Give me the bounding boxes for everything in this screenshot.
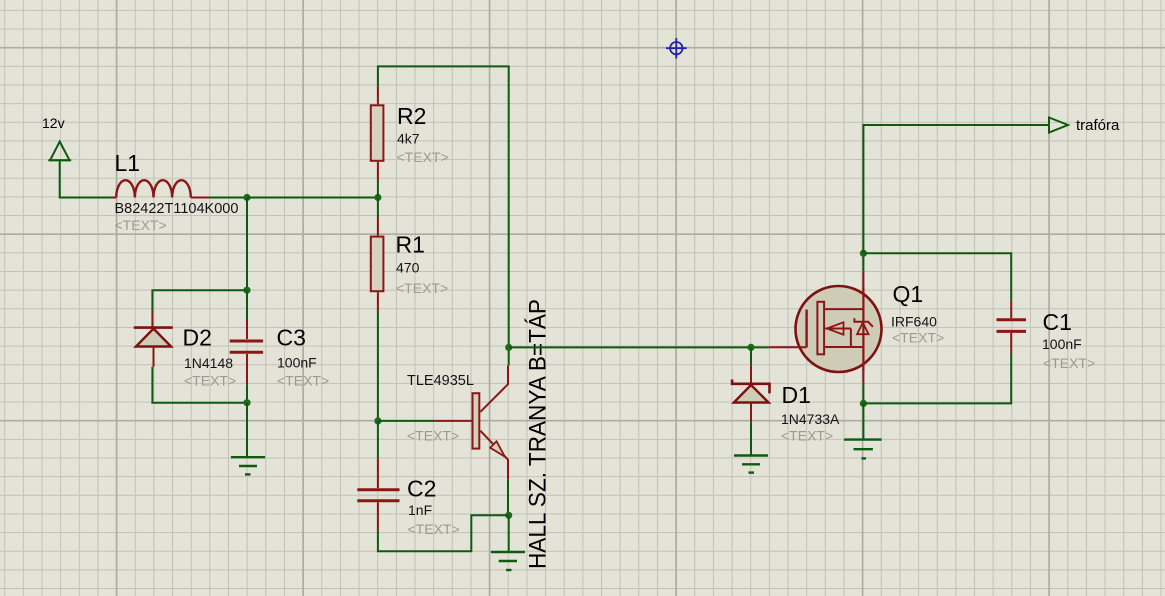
node I junction (drain)	[860, 250, 867, 257]
svg-text:1N4148: 1N4148	[184, 355, 233, 371]
svg-text:<TEXT>: <TEXT>	[1043, 355, 1095, 371]
wire C3 top	[246, 290, 248, 320]
svg-text:R1: R1	[396, 232, 425, 258]
wire collector node to gate	[509, 346, 769, 348]
svg-text:<TEXT>: <TEXT>	[277, 373, 329, 389]
wire emitter down	[507, 479, 509, 515]
wire R2 bottom to node B	[377, 181, 379, 198]
wire drain to node I	[862, 253, 864, 271]
svg-text:100nF: 100nF	[1042, 336, 1082, 352]
svg-text:IRF640: IRF640	[891, 314, 937, 330]
wire node G to ground	[508, 515, 510, 552]
node G junction (emitter/C2/ground)	[505, 512, 512, 519]
wire node D to ground	[246, 403, 248, 457]
transistor TLE4935L	[434, 365, 508, 479]
node H junction (gate/D1)	[747, 344, 754, 351]
resistor R1	[371, 217, 384, 311]
node D junction	[243, 399, 250, 406]
wire node I to C1	[863, 253, 1011, 300]
ground (C3/D2)	[231, 457, 265, 474]
wire node H to D1	[750, 347, 752, 365]
ground (emitter)	[491, 552, 525, 570]
wire node A down	[246, 198, 248, 291]
node A junction	[243, 194, 250, 201]
diode D2	[134, 312, 173, 367]
wire L1 to node A	[210, 197, 248, 199]
svg-text:D1: D1	[782, 382, 811, 408]
wire node B to R1	[377, 198, 379, 218]
svg-text:470: 470	[396, 260, 420, 276]
svg-text:4k7: 4k7	[397, 131, 420, 147]
svg-text:TLE4935L: TLE4935L	[407, 373, 474, 389]
svg-text:<TEXT>: <TEXT>	[781, 428, 833, 444]
node J junction (source)	[860, 400, 867, 407]
svg-text:C3: C3	[277, 325, 306, 351]
wire R1 bottom to node E	[377, 311, 379, 421]
zener diode D1	[732, 365, 769, 421]
svg-text:1N4733A: 1N4733A	[781, 411, 840, 427]
node F junction (collector)	[505, 344, 512, 351]
capacitor C3	[230, 320, 263, 384]
wire node A to R2 node	[247, 197, 378, 199]
ground (D1)	[734, 456, 768, 473]
inductor L1	[111, 180, 210, 197]
svg-text:R2: R2	[397, 103, 426, 129]
svg-text:100nF: 100nF	[277, 355, 317, 371]
resistor R2	[371, 86, 384, 180]
svg-text:Q1: Q1	[893, 281, 924, 307]
wire C3 bottom to node D	[246, 384, 248, 402]
svg-text:L1: L1	[115, 150, 141, 176]
svg-text:C1: C1	[1043, 309, 1072, 335]
svg-text:<TEXT>: <TEXT>	[115, 217, 167, 233]
svg-text:<TEXT>: <TEXT>	[408, 521, 460, 537]
wire C2 top from node E	[377, 421, 379, 458]
wire D1 to ground	[750, 421, 752, 455]
wire C2 bottom to node G	[378, 515, 509, 551]
node E junction (base)	[374, 417, 381, 424]
svg-text:trafóra: trafóra	[1076, 117, 1120, 134]
svg-text:12v: 12v	[42, 115, 65, 131]
svg-text:<TEXT>: <TEXT>	[396, 280, 448, 296]
wire source to node J	[862, 385, 864, 404]
svg-text:D2: D2	[183, 325, 212, 351]
wire D2 to node D	[152, 367, 247, 403]
wire node J to ground	[862, 403, 864, 439]
svg-text:<TEXT>: <TEXT>	[407, 428, 459, 444]
ground (source)	[844, 440, 882, 459]
capacitor C1	[997, 301, 1027, 353]
output terminal trafora	[1049, 118, 1068, 133]
wire 12v terminal to L1	[60, 160, 111, 197]
svg-text:<TEXT>: <TEXT>	[184, 373, 236, 389]
capacitor C2	[357, 458, 399, 530]
node B junction (R2/R1)	[374, 194, 381, 201]
wire drain node to output terminal	[863, 125, 1049, 253]
wire top loop R2 to collector rail	[378, 66, 509, 365]
wire node E to base pin	[378, 420, 434, 422]
svg-text:1nF: 1nF	[408, 502, 432, 518]
origin marker	[666, 38, 687, 59]
svg-text:<TEXT>: <TEXT>	[892, 330, 944, 346]
svg-text:HALL SZ. TRANYA B=TÁP: HALL SZ. TRANYA B=TÁP	[525, 299, 552, 569]
mosfet Q1	[769, 272, 882, 385]
power terminal 12v	[48, 142, 71, 161]
svg-text:<TEXT>: <TEXT>	[397, 149, 449, 165]
wire C1 bottom to node J	[863, 353, 1011, 403]
node C junction (D2/C3 top)	[243, 287, 250, 294]
svg-text:C2: C2	[407, 476, 436, 502]
svg-text:B82422T1104K000: B82422T1104K000	[115, 201, 239, 217]
wire node C to D2	[152, 290, 247, 311]
